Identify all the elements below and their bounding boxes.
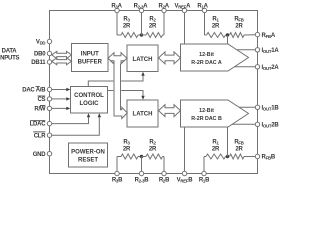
wire R2-3A riser: [141, 13, 143, 35]
svg-text:BUFFER: BUFFER: [78, 60, 103, 66]
svg-text:CS: CS: [37, 97, 45, 103]
pin IOUT1A: [255, 48, 259, 52]
pin CLR: [47, 133, 51, 137]
svg-text:12-Bit: 12-Bit: [199, 52, 214, 58]
svg-text:RESET: RESET: [78, 158, 98, 164]
svg-text:12-Bit: 12-Bit: [199, 108, 214, 114]
svg-text:RFB: RFB: [234, 16, 243, 22]
pin VREFA: [182, 8, 186, 12]
pin R2-3A: [139, 8, 143, 12]
pin R1B: [202, 171, 206, 175]
svg-text:R3B: R3B: [112, 178, 123, 184]
resistor RFB (2R) B: [230, 154, 245, 159]
svg-text:R3: R3: [123, 16, 130, 22]
svg-text:2R: 2R: [123, 24, 131, 30]
wire R/W to control logic: [52, 107, 67, 109]
control line to latch A: [88, 76, 143, 87]
pin RFBB: [255, 154, 259, 158]
bus arrow input buffer to latch A with branch bus down to latch B: [108, 53, 127, 119]
wire junction to DAC B: [227, 127, 229, 157]
svg-text:R-2R DAC A: R-2R DAC A: [191, 60, 222, 66]
wire LDAC to control logic: [52, 117, 89, 123]
bus arrow DB11 to input buffer: [52, 58, 72, 65]
svg-text:CLR: CLR: [34, 133, 46, 139]
wire R3A riser: [116, 13, 118, 35]
resistor R1 (2R) B: [206, 154, 226, 159]
resistor R2 (2R) B: [146, 154, 163, 159]
wire R2B riser: [163, 157, 165, 172]
wire junction to DAC A: [227, 35, 229, 44]
wire IOUT1B: [239, 106, 255, 108]
pin VDD: [47, 39, 51, 43]
bus arrow latch A to DAC A: [159, 52, 181, 64]
wire RFB A to pin: [244, 34, 255, 36]
svg-text:VDD: VDD: [36, 40, 46, 46]
svg-text:R3: R3: [123, 140, 130, 146]
wire CLR to control logic: [52, 117, 100, 135]
wire R2-3B riser: [141, 157, 143, 172]
svg-text:LATCH: LATCH: [133, 112, 153, 118]
pin GND: [47, 152, 51, 156]
wire CS to control logic: [52, 98, 67, 100]
bus arrow DB0 to input buffer: [52, 51, 72, 58]
wire IOUT1A: [237, 49, 256, 51]
control line to latch B: [108, 91, 144, 96]
chip outline: [50, 11, 258, 174]
pin CS: [47, 97, 51, 101]
svg-text:GND: GND: [33, 152, 47, 158]
power-on reset block: [69, 143, 108, 167]
pin IOUT1B: [255, 105, 259, 109]
input buffer block: [72, 44, 109, 72]
svg-text:R1B: R1B: [199, 178, 210, 184]
svg-text:LATCH: LATCH: [133, 57, 153, 63]
pin R3A: [115, 8, 119, 12]
wire R1A riser: [204, 13, 206, 35]
wire R2A riser: [163, 13, 165, 35]
svg-text:IOUT1A: IOUT1A: [262, 48, 280, 54]
svg-text:R2: R2: [149, 140, 156, 146]
pin R2A: [162, 8, 166, 12]
wire IOUT2B: [232, 123, 255, 125]
latch B block: [127, 100, 158, 127]
wire R1B riser: [203, 157, 205, 172]
svg-text:R2: R2: [149, 16, 156, 22]
svg-text:R-2R DAC B: R-2R DAC B: [191, 116, 222, 122]
DAC B block: [181, 100, 249, 127]
svg-text:POWER-ON: POWER-ON: [71, 150, 105, 156]
svg-text:2R: 2R: [212, 24, 220, 30]
latch A block: [127, 45, 158, 72]
svg-text:IOUT2A: IOUT2A: [262, 65, 280, 71]
svg-text:R2B: R2B: [159, 178, 170, 184]
svg-text:CONTROL: CONTROL: [74, 93, 104, 99]
wire DAC A/B select to control logic: [52, 89, 67, 91]
svg-text:2R: 2R: [212, 147, 220, 153]
svg-text:DAC A/B: DAC A/B: [22, 88, 46, 94]
pin DAC A/B: [47, 87, 51, 91]
svg-text:2R: 2R: [123, 147, 131, 153]
pin R1A: [202, 8, 206, 12]
svg-text:R1: R1: [212, 16, 219, 22]
svg-text:RFBB: RFBB: [262, 155, 276, 161]
svg-text:2R: 2R: [149, 24, 157, 30]
svg-text:R2A: R2A: [159, 4, 170, 10]
pin VREFB: [182, 171, 186, 175]
svg-text:VREFB: VREFB: [177, 178, 194, 184]
pin IOUT2B: [255, 122, 259, 126]
svg-text:VREFA: VREFA: [174, 4, 191, 10]
node R2-3A junction: [140, 33, 143, 36]
svg-text:R2-3A: R2-3A: [134, 4, 149, 10]
pin R2-3B: [139, 171, 143, 175]
pin LDAC: [47, 121, 51, 125]
svg-text:R/W: R/W: [34, 107, 46, 113]
resistor RFB (2R) A: [230, 33, 245, 38]
svg-text:R3A: R3A: [111, 4, 122, 10]
pin DB0: [47, 51, 51, 55]
svg-text:R1: R1: [212, 140, 219, 146]
svg-text:2R: 2R: [149, 147, 157, 153]
bus arrow latch B to DAC B: [159, 105, 181, 117]
svg-text:INPUT: INPUT: [81, 52, 99, 58]
svg-text:DB11: DB11: [31, 60, 46, 66]
node R2-3B junction: [140, 155, 143, 158]
svg-text:2R: 2R: [235, 24, 243, 30]
resistor R3 (2R) B: [121, 154, 138, 159]
node R1/RFB junction A: [226, 33, 229, 36]
svg-text:2R: 2R: [235, 147, 243, 153]
wire VREFB to DAC B: [184, 127, 186, 171]
node R1/RFB junction B: [226, 155, 229, 158]
DAC A block: [181, 44, 249, 71]
wire VREFA to DAC A: [184, 13, 186, 44]
svg-text:INPUTS: INPUTS: [0, 56, 19, 62]
pin DB11: [47, 60, 51, 64]
pin R/W: [47, 106, 51, 110]
svg-text:IOUT2B: IOUT2B: [262, 123, 280, 129]
wire IOUT2A: [235, 66, 256, 68]
svg-text:DB0: DB0: [34, 52, 46, 58]
wire RFB B to pin: [244, 156, 255, 158]
control logic block: [71, 87, 108, 114]
pin R2B: [162, 171, 166, 175]
wire R3B riser: [116, 157, 118, 172]
svg-text:LOGIC: LOGIC: [80, 101, 100, 107]
pin IOUT2A: [255, 65, 259, 69]
resistor R1 (2R) A: [207, 33, 226, 38]
svg-text:LDAC: LDAC: [30, 122, 47, 128]
svg-text:RFBA: RFBA: [262, 33, 276, 39]
resistor R2 (2R) A: [146, 33, 163, 38]
resistor R3 (2R) A: [121, 33, 138, 38]
svg-text:R1A: R1A: [197, 4, 208, 10]
svg-text:R2-3B: R2-3B: [135, 178, 150, 184]
svg-text:IOUT1B: IOUT1B: [262, 106, 280, 112]
pin RFBA: [255, 32, 259, 36]
svg-text:RFB: RFB: [234, 140, 243, 146]
pin R3B: [115, 171, 119, 175]
svg-text:DATA: DATA: [2, 48, 18, 54]
